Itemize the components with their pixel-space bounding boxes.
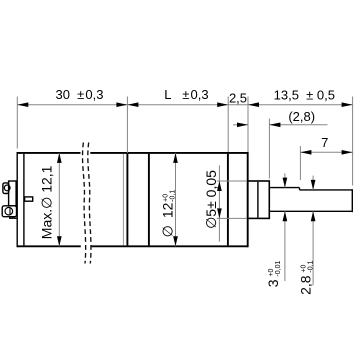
boss ring line bbox=[257, 182, 259, 218]
screw lower bbox=[5, 207, 13, 215]
wire bottom edge right of break bbox=[91, 245, 248, 247]
arrow at 13,5 right end bbox=[342, 102, 353, 107]
svg-text:2,5: 2,5 bbox=[229, 91, 247, 106]
arrow dia5 up bbox=[217, 181, 222, 191]
wire top edge right of break bbox=[90, 152, 247, 154]
value label 3 tolerance bbox=[265, 261, 282, 288]
arrow dia3 down bbox=[283, 178, 288, 188]
arrow dia12 up bbox=[173, 153, 178, 163]
shaft bbox=[269, 188, 352, 213]
dimension 3 +0/-0.01 bbox=[265, 173, 287, 287]
arrow dia5 down bbox=[217, 208, 222, 218]
arrow Max down bbox=[57, 236, 62, 246]
dimension 7 bbox=[300, 135, 352, 155]
leader dia3 upper stub bbox=[284, 173, 286, 187]
break lines (shortened section) bbox=[83, 143, 91, 264]
dim line dia5 bbox=[218, 165, 220, 241]
terminal lug lower bbox=[2, 206, 16, 217]
dim line 7 bbox=[300, 151, 352, 153]
svg-text:2,8: 2,8 bbox=[298, 275, 314, 295]
brush cover tab bbox=[25, 197, 33, 201]
dimension 2,8 +0/-0.1 bbox=[298, 176, 316, 295]
gearbox front ring line bbox=[227, 154, 229, 246]
arrow (2,8) left bbox=[237, 122, 248, 127]
leader dia3 lower bbox=[284, 211, 286, 281]
svg-text:13,5 ± 0,5: 13,5 ± 0,5 bbox=[274, 87, 335, 102]
arrow dia12 down bbox=[173, 236, 178, 246]
shaft end face bbox=[351, 189, 353, 212]
svg-text:(2,8): (2,8) bbox=[288, 109, 315, 124]
value label dia12 tolerance bbox=[160, 190, 177, 238]
break line right bbox=[88, 143, 91, 264]
svg-text:Max.∅ 12,1: Max.∅ 12,1 bbox=[38, 165, 54, 239]
svg-text:-0,1: -0,1 bbox=[169, 190, 176, 202]
leader dia2,8 lower bbox=[312, 211, 314, 285]
dimension dia5 bbox=[203, 165, 247, 241]
arrow dia2,8 up bbox=[311, 211, 316, 221]
svg-text:12: 12 bbox=[160, 202, 176, 218]
dimension (2,8) bbox=[233, 109, 328, 127]
arrow (2,8) right bbox=[269, 122, 280, 127]
svg-text:L ± 0,3: L ± 0,3 bbox=[164, 87, 208, 102]
gearbox rear ring line bbox=[148, 154, 150, 246]
svg-text:3: 3 bbox=[265, 279, 281, 287]
arrow dia3 up bbox=[283, 211, 288, 221]
shaft top edge dia2.8 bbox=[300, 189, 353, 191]
svg-text:7: 7 bbox=[321, 135, 328, 150]
arrow Max up bbox=[57, 153, 62, 163]
leader dia2,8 upper stub bbox=[312, 176, 314, 190]
dim line Max dia12,1 bbox=[58, 153, 60, 246]
dim line (2,8) left segment bbox=[233, 124, 248, 126]
svg-text:-0,01: -0,01 bbox=[275, 261, 282, 277]
svg-text:-0,1: -0,1 bbox=[308, 260, 315, 272]
shaft bottom edge bbox=[269, 210, 352, 212]
arrow 7 right bbox=[342, 150, 353, 155]
dim line dia12 bbox=[175, 153, 177, 246]
break line left bbox=[83, 143, 86, 264]
svg-text:30 ± 0,3: 30 ± 0,3 bbox=[56, 87, 104, 102]
shaft top edge dia3 bbox=[269, 187, 299, 189]
extension line dia5 top bbox=[217, 180, 247, 182]
extension lines top dims bbox=[17, 97, 352, 186]
arrows at 30/L junction bbox=[116, 102, 127, 107]
motor end cap left face bbox=[16, 152, 18, 247]
dimension dia12 bbox=[160, 153, 178, 246]
extension line shaft end x352 bbox=[352, 97, 354, 186]
boss outline bbox=[248, 181, 270, 218]
arrow at 13,5 left end bbox=[248, 102, 259, 107]
motor front face thin line bbox=[122, 154, 124, 246]
wire top edge left of break bbox=[17, 152, 80, 154]
extension line gearbox front face x248 bbox=[247, 97, 249, 153]
svg-text:+0: +0 bbox=[268, 269, 275, 277]
extension line boss front face x269 bbox=[268, 119, 270, 179]
extension line dia5 bottom bbox=[217, 217, 247, 219]
screw upper bbox=[4, 185, 10, 191]
terminal bracket plate bbox=[9, 181, 17, 206]
extension line shaft step x300 bbox=[299, 146, 301, 180]
dimension 30 / L / 2,5 / 13,5 main line bbox=[17, 104, 352, 106]
dimension Max dia12,1 bbox=[38, 153, 61, 246]
extension line gearbox ring x228 bbox=[227, 97, 229, 153]
terminal lug upper bbox=[3, 183, 9, 194]
svg-text:∅: ∅ bbox=[160, 225, 176, 237]
terminal block bbox=[2, 181, 17, 218]
dim line (2,8) right segment bbox=[269, 124, 327, 126]
svg-text:+0: +0 bbox=[162, 194, 169, 202]
screw slot lower bbox=[9, 208, 11, 215]
extension line motor/gearbox joint x127 bbox=[126, 97, 128, 154]
lower lug foot bbox=[9, 217, 17, 219]
arrow 7 left bbox=[300, 150, 311, 155]
svg-text:+0: +0 bbox=[300, 265, 307, 273]
svg-text:∅5± 0,05: ∅5± 0,05 bbox=[203, 170, 219, 229]
extension line motor rear face x17 bbox=[16, 97, 18, 149]
value label 2,8 tolerance bbox=[298, 260, 315, 294]
bearing boss bbox=[248, 181, 270, 218]
motor body outline bbox=[17, 152, 248, 247]
arrow dia2,8 down bbox=[311, 180, 316, 190]
shaft step bbox=[299, 188, 301, 190]
wire bottom edge left of break bbox=[17, 245, 81, 247]
arrow left at 30 bbox=[17, 102, 28, 107]
gearbox front face bbox=[247, 152, 249, 247]
arrow at L right end bbox=[217, 102, 228, 107]
motor end cap inner line bbox=[23, 154, 25, 246]
motor/gearbox joint bbox=[126, 154, 128, 246]
